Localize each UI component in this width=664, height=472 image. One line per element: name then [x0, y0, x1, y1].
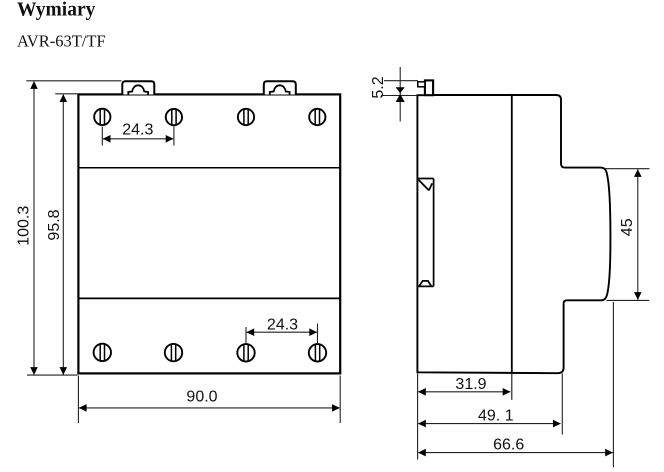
screw bottom 2 — [165, 344, 182, 361]
extension below front face — [511, 374, 513, 400]
front view body outline — [78, 94, 340, 373]
svg-text:24.3: 24.3 — [122, 122, 153, 139]
screw top 3 — [238, 109, 254, 125]
dimension line 95.8 — [46, 94, 67, 375]
dimension 49.1 — [418, 374, 562, 435]
screw bottom 3 — [237, 344, 254, 361]
svg-text:AVR-63T/TF: AVR-63T/TF — [17, 32, 106, 51]
dimension 31.9 — [418, 374, 511, 460]
DIN clip tab — [425, 80, 433, 95]
screw top 4 — [309, 109, 325, 125]
mounting tab 1 inner bump — [128, 85, 148, 94]
dimension 24.3 top — [102, 122, 174, 146]
extension line top for 95.8 — [55, 93, 77, 95]
side view body outline — [417, 95, 610, 373]
dimension 66.6 — [418, 302, 613, 467]
DIN clip notch box — [418, 82, 425, 87]
screw bottom 1 — [94, 344, 111, 361]
screw top 2 — [166, 109, 182, 125]
mounting tab 2 inner bump — [270, 85, 290, 94]
dimension 45 — [606, 169, 650, 301]
mounting tab 1 outer — [122, 81, 154, 94]
extension line top for 100.3 — [26, 80, 121, 82]
dimension line 100.3 — [16, 81, 38, 375]
extension line bottom left — [27, 374, 77, 376]
DIN rail hook — [418, 179, 433, 287]
DIN channel bottom + detent — [418, 281, 434, 287]
dimension 90.0 bottom — [78, 376, 340, 424]
svg-text:90.0: 90.0 — [186, 389, 217, 406]
dimension 5.2 — [370, 67, 418, 121]
svg-text:5.2: 5.2 — [370, 76, 387, 98]
screw top 1 — [94, 109, 110, 125]
front view divider lower — [78, 297, 340, 299]
svg-text:66.6: 66.6 — [493, 437, 524, 454]
side view front face line — [511, 94, 513, 374]
front view divider upper — [78, 167, 340, 169]
svg-text:95.8: 95.8 — [46, 209, 63, 240]
mounting tab 2 outer — [264, 81, 296, 94]
svg-text:49. 1: 49. 1 — [478, 408, 514, 425]
dimension 24.3 bottom — [246, 317, 318, 344]
screw bottom 4 — [309, 344, 326, 361]
svg-text:31.9: 31.9 — [455, 376, 486, 393]
svg-text:Wymiary: Wymiary — [17, 0, 96, 21]
svg-text:24.3: 24.3 — [267, 317, 298, 334]
svg-text:100.3: 100.3 — [16, 206, 33, 246]
svg-text:45: 45 — [619, 218, 636, 236]
